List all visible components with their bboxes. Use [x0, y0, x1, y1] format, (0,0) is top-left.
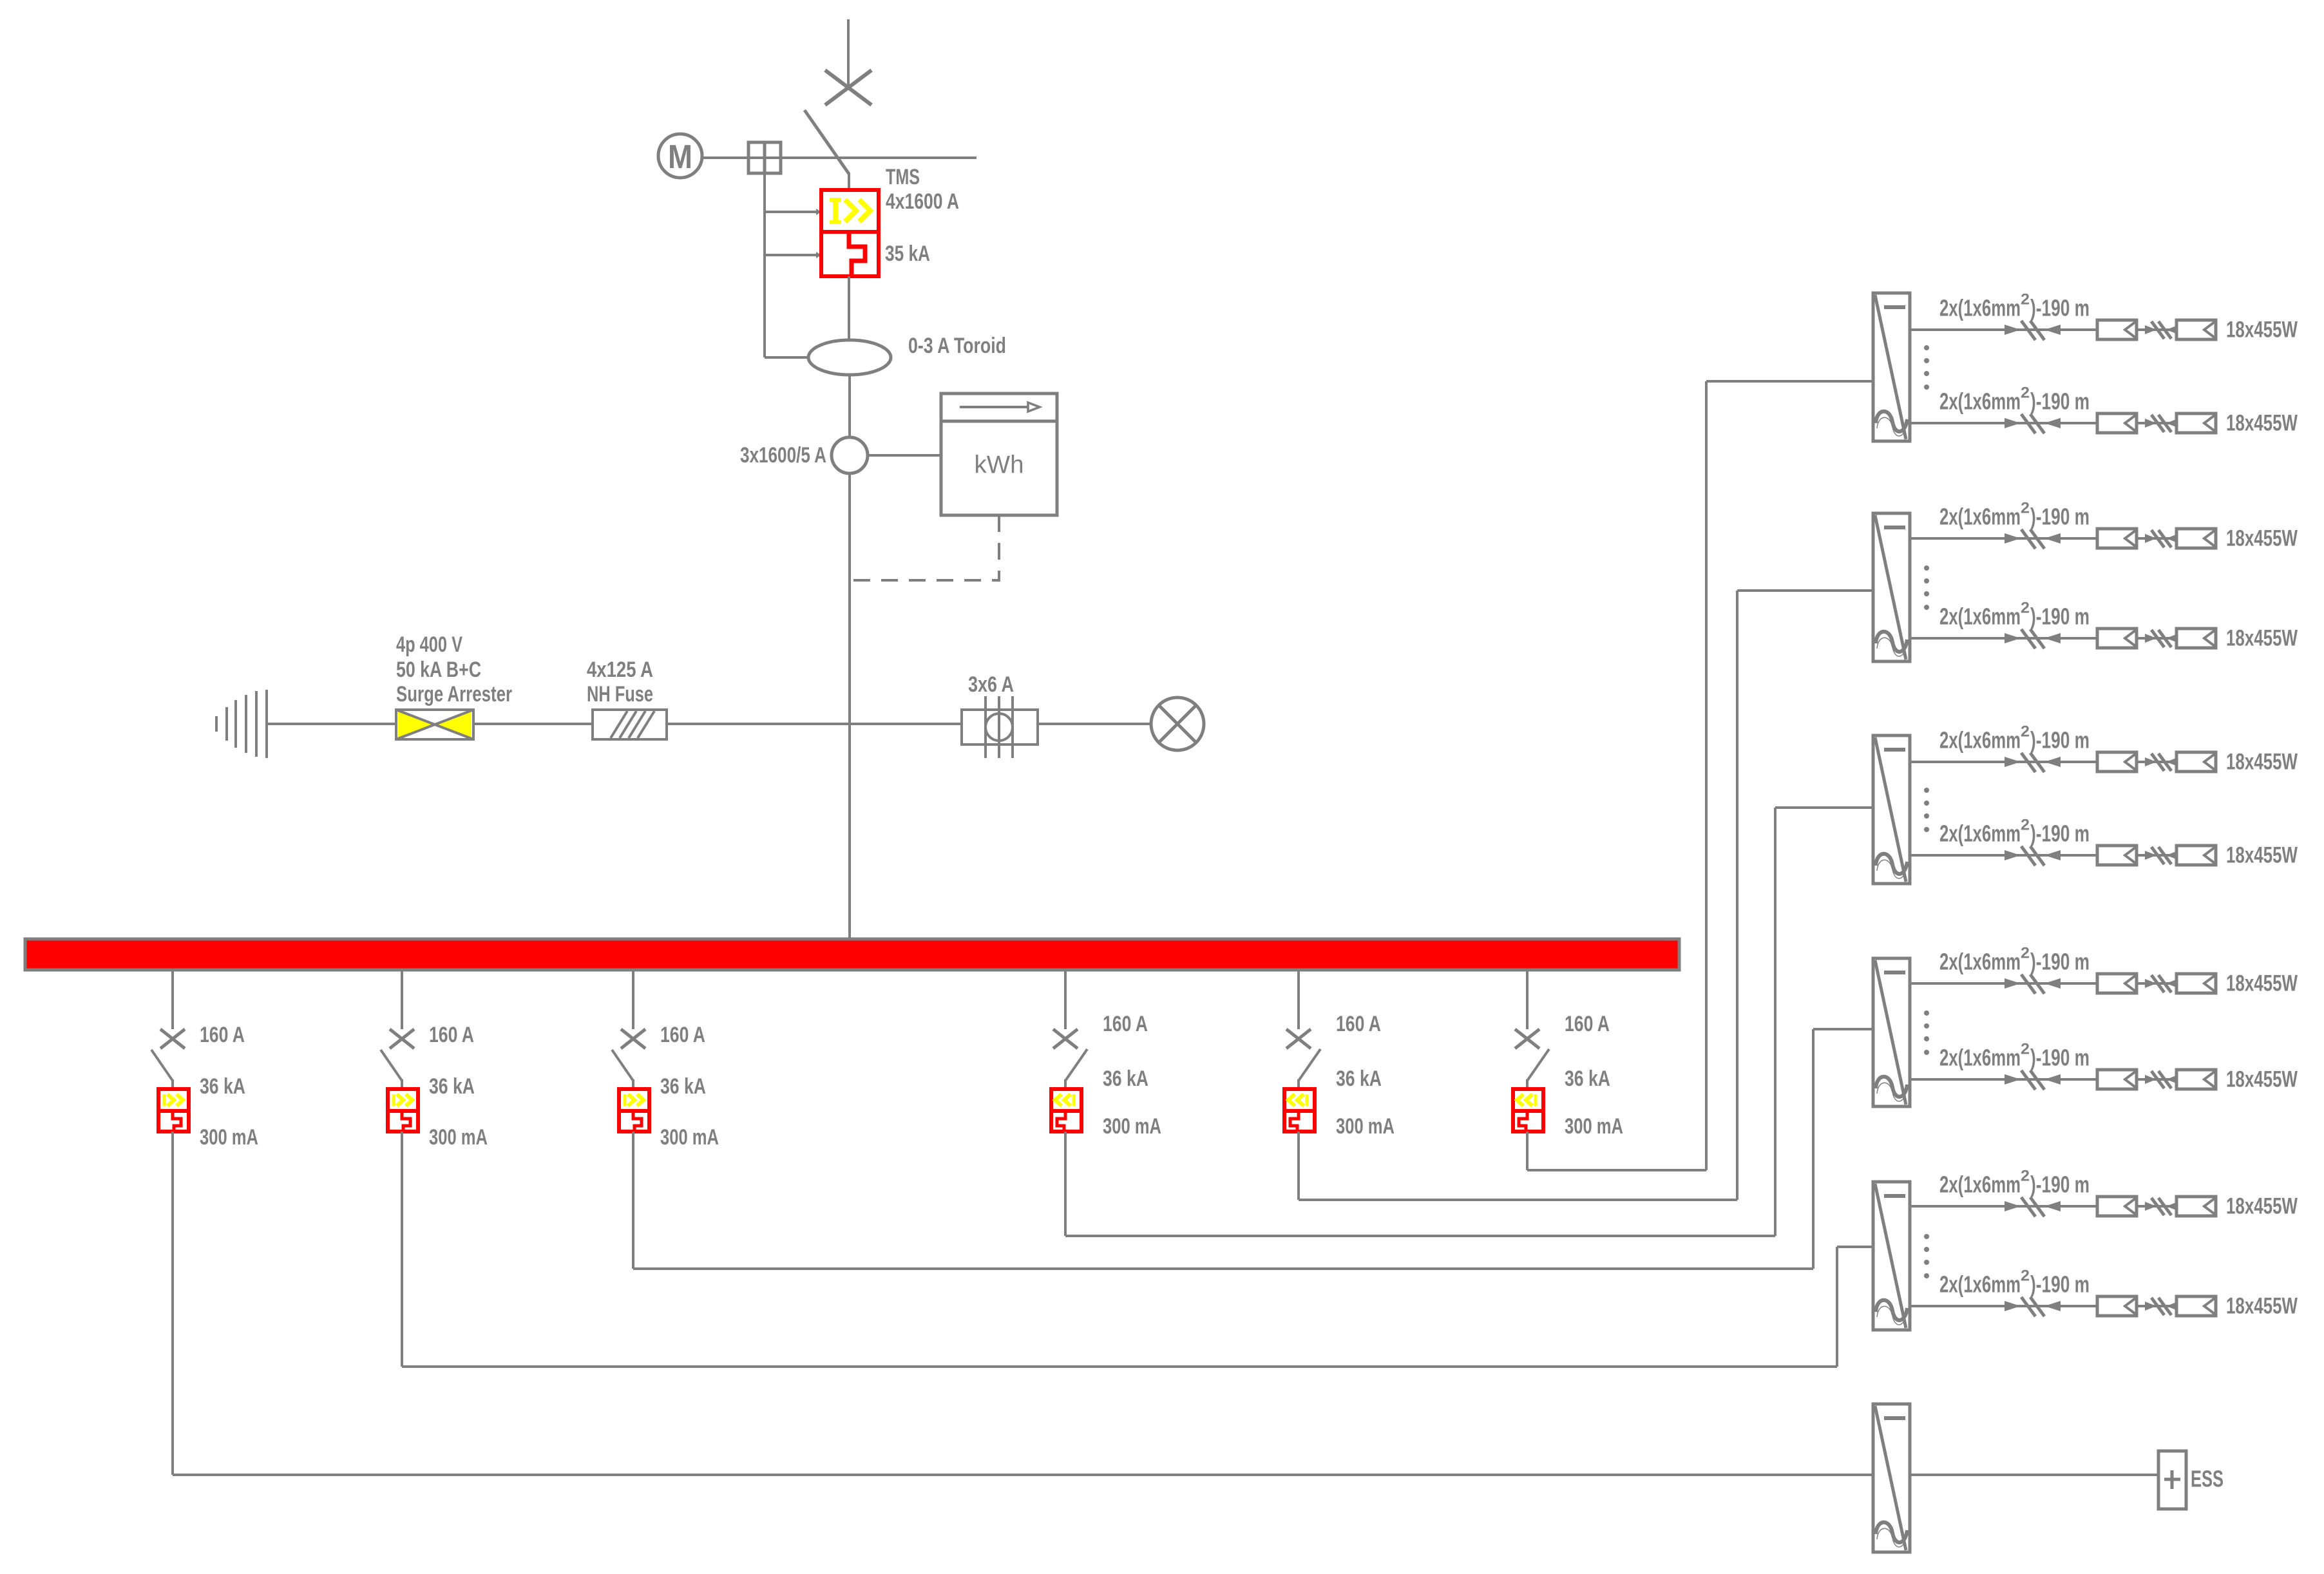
- DB1 circuit 2 cable label: [1939, 384, 2090, 415]
- feeder Q2 riser to distribution board: [1837, 1247, 1873, 1367]
- svg-text:0-3 A Toroid: 0-3 A Toroid: [908, 334, 1006, 358]
- DB1 circuit 1 luminaire group 1: [2097, 320, 2137, 339]
- DB4 circuit 1 luminaire group 2: [2176, 974, 2216, 993]
- DB2 circuit 1 label 18x455W: [2226, 526, 2298, 551]
- wire toroid to CT: [848, 375, 851, 438]
- label surge arrester: [396, 632, 512, 706]
- svg-text:300 mA: 300 mA: [200, 1125, 258, 1150]
- svg-text:2: 2: [2021, 1267, 2030, 1285]
- DB2 circuit 1 luminaire group 2: [2176, 529, 2216, 548]
- svg-text:)-190 m: )-190 m: [2030, 603, 2090, 630]
- svg-text:2: 2: [2021, 817, 2030, 834]
- svg-text:2: 2: [2021, 723, 2030, 741]
- svg-text:2x(1x6mm: 2x(1x6mm: [1939, 949, 2021, 975]
- feeder Q3 label 36 kA: [660, 1074, 706, 1099]
- svg-text:)-190 m: )-190 m: [2030, 820, 2090, 847]
- feeder Q5 label 160 A: [1336, 1012, 1381, 1036]
- feeder Q3 wire from busbar: [632, 970, 634, 1029]
- svg-text:36 kA: 36 kA: [1565, 1067, 1610, 1091]
- crossed square interlock symbol: [748, 142, 781, 173]
- feeder Q5 breaker blade: [1299, 1049, 1320, 1090]
- DB4 circuit 1 wire: [1910, 982, 2097, 985]
- svg-text:36 kA: 36 kA: [1336, 1067, 1382, 1091]
- feeder Q6 riser to distribution board: [1706, 381, 1873, 1170]
- distribution board DB3: [1873, 735, 1910, 884]
- svg-text:18x455W: 18x455W: [2226, 843, 2298, 868]
- DB5 dotted continuation: [1924, 1234, 1929, 1278]
- feeder Q1 wire from busbar: [171, 970, 174, 1029]
- svg-text:4x1600 A: 4x1600 A: [886, 189, 959, 214]
- label ESS: [2191, 1466, 2224, 1492]
- svg-text:36 kA: 36 kA: [200, 1074, 245, 1099]
- feeder Q1 outgoing wire run: [173, 1132, 1873, 1475]
- svg-text:2: 2: [2021, 600, 2030, 617]
- label 3x6 A: [968, 672, 1014, 697]
- svg-text:18x455W: 18x455W: [2226, 750, 2298, 775]
- svg-text:4p 400 V: 4p 400 V: [396, 632, 462, 657]
- DB5 circuit 2 luminaire group 1: [2097, 1296, 2137, 1316]
- main busbar 400 V: [25, 939, 1679, 970]
- feeder Q5 label 300 mA: [1336, 1114, 1395, 1139]
- DB3 circuit 1 cable label: [1939, 723, 2090, 754]
- DB4 circuit 1 cable joint symbol: [2005, 974, 2061, 994]
- wire main riser to busbar: [848, 473, 851, 939]
- wire arrester to fuse: [473, 723, 593, 725]
- svg-text:18x455W: 18x455W: [2226, 971, 2298, 996]
- feeder Q5 riser to distribution board: [1737, 591, 1873, 1200]
- feeder Q4 wire from busbar: [1064, 970, 1067, 1029]
- DB3 circuit 2 joint symbol 2: [2137, 847, 2178, 864]
- feeder Q5 disconnect cross: [1286, 1029, 1311, 1048]
- feeder Q5 RCD trip box 300 mA: [1284, 1089, 1315, 1132]
- wire auxiliary bus: [702, 156, 976, 159]
- feeder Q2 breaker blade: [381, 1050, 402, 1090]
- svg-text:300 mA: 300 mA: [660, 1125, 719, 1150]
- feeder Q6 label 36 kA: [1565, 1067, 1610, 1091]
- DB4 circuit 2 cable label: [1939, 1041, 2090, 1071]
- DB4 circuit 2 luminaire group 2: [2176, 1070, 2216, 1089]
- DB5 circuit 2 joint symbol 2: [2137, 1298, 2178, 1315]
- feeder Q4 outgoing wire run: [1065, 1132, 1775, 1236]
- svg-text:2: 2: [2021, 945, 2030, 962]
- DB2 circuit 2 joint symbol 2: [2137, 630, 2178, 647]
- svg-text:M: M: [668, 138, 692, 176]
- svg-text:2x(1x6mm: 2x(1x6mm: [1939, 1271, 2021, 1298]
- svg-text:2: 2: [2021, 291, 2030, 308]
- DB4 circuit 1 label 18x455W: [2226, 971, 2298, 996]
- svg-text:ESS: ESS: [2191, 1466, 2224, 1492]
- DB5 circuit 1 wire: [1910, 1205, 2097, 1208]
- DB1 circuit 2 cable joint symbol: [2005, 414, 2061, 433]
- DB2 circuit 1 joint symbol 2: [2137, 530, 2178, 547]
- DB5 circuit 2 wire: [1910, 1305, 2097, 1307]
- svg-text:2x(1x6mm: 2x(1x6mm: [1939, 504, 2021, 530]
- feeder Q1 label 36 kA: [200, 1074, 245, 1099]
- DB5 circuit 2 cable joint symbol: [2005, 1297, 2061, 1316]
- DB3 circuit 1 label 18x455W: [2226, 750, 2298, 775]
- svg-text:3x1600/5 A: 3x1600/5 A: [740, 443, 826, 468]
- svg-text:300 mA: 300 mA: [1336, 1114, 1395, 1139]
- feeder Q2 RCD trip box 300 mA: [388, 1089, 418, 1132]
- motor operator M: [658, 134, 702, 178]
- svg-text:4x125 A: 4x125 A: [587, 658, 653, 682]
- DB5 circuit 1 cable label: [1939, 1168, 2090, 1198]
- feeder Q2 label 300 mA: [429, 1125, 488, 1150]
- wire breaker to toroid: [848, 276, 850, 341]
- feeder Q2 label 36 kA: [429, 1074, 475, 1099]
- feeder Q5 wire from busbar: [1297, 970, 1300, 1029]
- feeder Q1 RCD trip box 300 mA: [158, 1089, 189, 1132]
- svg-text:2: 2: [2021, 1041, 2030, 1058]
- distribution board DB1: [1873, 293, 1910, 441]
- DB2 circuit 1 wire: [1910, 537, 2097, 540]
- feeder Q2 outgoing wire run: [402, 1132, 1837, 1367]
- kWh energy meter: [941, 393, 1057, 515]
- feeder Q4 label 300 mA: [1103, 1114, 1161, 1139]
- svg-text:18x455W: 18x455W: [2226, 411, 2298, 436]
- svg-text:)-190 m: )-190 m: [2030, 1171, 2090, 1198]
- svg-text:2x(1x6mm: 2x(1x6mm: [1939, 1045, 2021, 1071]
- label 35 kA: [885, 242, 930, 266]
- DB5 circuit 1 luminaire group 2: [2176, 1197, 2216, 1216]
- feeder Q2 disconnect cross: [390, 1029, 414, 1048]
- feeder Q6 breaker blade: [1527, 1049, 1549, 1090]
- svg-text:18x455W: 18x455W: [2226, 1067, 2298, 1092]
- svg-text:300 mA: 300 mA: [1103, 1114, 1161, 1139]
- DB3 circuit 1 joint symbol 2: [2137, 754, 2178, 771]
- feeder Q2 wire from busbar: [401, 970, 403, 1029]
- DB3 circuit 2 wire: [1910, 854, 2097, 857]
- feeder Q5 outgoing wire run: [1299, 1132, 1737, 1200]
- current transformer 3x1600/5 A: [832, 437, 868, 473]
- svg-text:)-190 m: )-190 m: [2030, 1271, 2090, 1298]
- svg-text:18x455W: 18x455W: [2226, 318, 2298, 343]
- feeder Q4 RCD trip box 300 mA: [1051, 1089, 1081, 1132]
- svg-text:)-190 m: )-190 m: [2030, 727, 2090, 754]
- svg-text:18x455W: 18x455W: [2226, 526, 2298, 551]
- trip unit box I>> (TMS 4x1600 A): [821, 190, 879, 232]
- feeder Q4 disconnect cross: [1053, 1029, 1078, 1048]
- signal lamp: [1151, 697, 1204, 750]
- svg-text:2: 2: [2021, 500, 2030, 517]
- svg-text:36 kA: 36 kA: [1103, 1067, 1148, 1091]
- svg-text:160 A: 160 A: [660, 1023, 705, 1047]
- NH fuse 4x125 A: [593, 710, 667, 739]
- DB1 circuit 1 label 18x455W: [2226, 318, 2298, 343]
- DB6 output wire to ESS: [1910, 1474, 2158, 1476]
- svg-text:160 A: 160 A: [1336, 1012, 1381, 1036]
- antenna earth electrode symbol: [216, 690, 267, 758]
- DB5 circuit 2 label 18x455W: [2226, 1294, 2298, 1319]
- feeder Q3 riser to distribution board: [1813, 1029, 1873, 1269]
- svg-text:2x(1x6mm: 2x(1x6mm: [1939, 603, 2021, 630]
- svg-text:18x455W: 18x455W: [2226, 1194, 2298, 1219]
- svg-text:36 kA: 36 kA: [660, 1074, 706, 1099]
- DB3 circuit 1 luminaire group 1: [2097, 752, 2137, 772]
- feeder Q5 label 36 kA: [1336, 1067, 1382, 1091]
- surge arrester 4p 400 V 50 kA B+C: [396, 710, 473, 739]
- DB1 circuit 1 cable label: [1939, 291, 2090, 321]
- svg-text:36 kA: 36 kA: [429, 1074, 475, 1099]
- DB1 circuit 1 cable joint symbol: [2005, 321, 2061, 340]
- toroid CT 0-3 A: [765, 340, 891, 375]
- feeder Q6 wire from busbar: [1526, 970, 1529, 1029]
- DB1 circuit 1 luminaire group 2: [2176, 320, 2216, 339]
- wire tap to trip unit: [765, 252, 821, 258]
- DB5 circuit 1 cable joint symbol: [2005, 1197, 2061, 1217]
- feeder Q3 label 160 A: [660, 1023, 705, 1047]
- distribution board DB6: [1873, 1404, 1910, 1552]
- feeder Q6 RCD trip box 300 mA: [1513, 1089, 1543, 1132]
- feeder Q4 breaker blade: [1065, 1049, 1087, 1090]
- DB2 circuit 2 luminaire group 2: [2176, 629, 2216, 648]
- svg-text:300 mA: 300 mA: [429, 1125, 488, 1150]
- svg-text:)-190 m: )-190 m: [2030, 504, 2090, 530]
- DB2 circuit 2 wire: [1910, 637, 2097, 640]
- DB2 dotted continuation: [1924, 565, 1929, 610]
- svg-text:TMS: TMS: [886, 165, 920, 189]
- svg-text:160 A: 160 A: [1103, 1012, 1148, 1036]
- label TMS: [886, 165, 920, 189]
- svg-text:)-190 m: )-190 m: [2030, 388, 2090, 415]
- feeder Q1 label 160 A: [200, 1023, 245, 1047]
- label 3x1600/5 A: [740, 443, 826, 468]
- contactor 3x6 A: [962, 696, 1038, 758]
- DB4 circuit 2 luminaire group 1: [2097, 1070, 2137, 1089]
- DB2 circuit 1 cable joint symbol: [2005, 529, 2061, 549]
- wire incoming supply stub: [847, 19, 850, 88]
- wire fuse to control device: [667, 723, 962, 725]
- svg-text:50 kA B+C: 50 kA B+C: [396, 658, 481, 682]
- svg-text:160 A: 160 A: [1565, 1012, 1610, 1036]
- DB4 circuit 1 luminaire group 1: [2097, 974, 2137, 993]
- svg-text:2x(1x6mm: 2x(1x6mm: [1939, 295, 2021, 321]
- feeder Q6 outgoing wire run: [1527, 1132, 1706, 1170]
- thermal-magnetic release box (35 kA): [821, 232, 879, 276]
- ESS emergency supply box: [2158, 1451, 2186, 1509]
- DB4 circuit 2 label 18x455W: [2226, 1067, 2298, 1092]
- DB3 circuit 1 wire: [1910, 761, 2097, 763]
- circuit breaker Q0 blade: [805, 110, 849, 191]
- DB5 circuit 1 luminaire group 1: [2097, 1197, 2137, 1216]
- wire tap to overcurrent release: [765, 209, 821, 215]
- DB3 dotted continuation: [1924, 788, 1929, 832]
- feeder Q1 label 300 mA: [200, 1125, 258, 1150]
- label NH fuse: [587, 658, 653, 706]
- DB1 circuit 2 label 18x455W: [2226, 411, 2298, 436]
- DB1 circuit 2 luminaire group 1: [2097, 413, 2137, 433]
- svg-text:kWh: kWh: [975, 451, 1024, 479]
- DB2 circuit 2 cable label: [1939, 600, 2090, 630]
- svg-text:300 mA: 300 mA: [1565, 1114, 1623, 1139]
- svg-text:)-190 m: )-190 m: [2030, 295, 2090, 321]
- DB2 circuit 2 label 18x455W: [2226, 626, 2298, 651]
- DB3 circuit 2 cable joint symbol: [2005, 846, 2061, 866]
- DB3 circuit 2 cable label: [1939, 817, 2090, 847]
- DB1 circuit 1 wire: [1910, 328, 2097, 331]
- distribution board DB5: [1873, 1182, 1910, 1330]
- svg-text:35 kA: 35 kA: [885, 242, 930, 266]
- DB3 circuit 2 label 18x455W: [2226, 843, 2298, 868]
- dashed meter connection: [851, 515, 999, 580]
- feeder Q4 riser to distribution board: [1775, 808, 1873, 1236]
- svg-text:2x(1x6mm: 2x(1x6mm: [1939, 820, 2021, 847]
- DB3 circuit 1 cable joint symbol: [2005, 753, 2061, 772]
- feeder Q3 RCD trip box 300 mA: [619, 1089, 649, 1132]
- feeder Q3 label 300 mA: [660, 1125, 719, 1150]
- DB1 circuit 2 wire: [1910, 422, 2097, 424]
- wire antenna to surge arrester: [267, 723, 396, 725]
- DB3 circuit 1 luminaire group 2: [2176, 752, 2216, 772]
- DB4 circuit 2 cable joint symbol: [2005, 1070, 2061, 1090]
- feeder Q1 disconnect cross: [160, 1029, 185, 1048]
- svg-text:2x(1x6mm: 2x(1x6mm: [1939, 388, 2021, 415]
- label 4x1600 A: [886, 189, 959, 214]
- svg-text:18x455W: 18x455W: [2226, 1294, 2298, 1319]
- DB4 circuit 2 wire: [1910, 1078, 2097, 1081]
- feeder Q2 label 160 A: [429, 1023, 474, 1047]
- DB5 circuit 2 cable label: [1939, 1267, 2090, 1298]
- svg-text:)-190 m: )-190 m: [2030, 1045, 2090, 1071]
- DB2 circuit 2 cable joint symbol: [2005, 629, 2061, 649]
- feeder Q1 breaker blade: [151, 1050, 173, 1090]
- DB4 circuit 1 joint symbol 2: [2137, 975, 2178, 992]
- wire left control branch: [763, 173, 766, 357]
- DB4 dotted continuation: [1924, 1010, 1929, 1055]
- svg-text:3x6 A: 3x6 A: [968, 672, 1014, 697]
- DB4 circuit 2 joint symbol 2: [2137, 1071, 2178, 1088]
- DB3 circuit 2 luminaire group 2: [2176, 846, 2216, 865]
- DB2 circuit 1 luminaire group 1: [2097, 529, 2137, 548]
- DB3 circuit 2 luminaire group 1: [2097, 846, 2137, 865]
- DB5 circuit 1 label 18x455W: [2226, 1194, 2298, 1219]
- DB5 circuit 1 joint symbol 2: [2137, 1198, 2178, 1215]
- svg-text:2: 2: [2021, 384, 2030, 402]
- distribution board DB2: [1873, 513, 1910, 661]
- svg-text:160 A: 160 A: [200, 1023, 245, 1047]
- feeder Q6 disconnect cross: [1515, 1029, 1539, 1048]
- svg-text:160 A: 160 A: [429, 1023, 474, 1047]
- feeder Q3 breaker blade: [612, 1050, 633, 1090]
- disconnect cross X1 (incoming): [825, 70, 871, 105]
- svg-text:NH Fuse: NH Fuse: [587, 682, 653, 706]
- svg-text:2x(1x6mm: 2x(1x6mm: [1939, 1171, 2021, 1198]
- feeder Q6 label 160 A: [1565, 1012, 1610, 1036]
- distribution board DB4: [1873, 958, 1910, 1106]
- DB2 circuit 1 cable label: [1939, 500, 2090, 530]
- label 0-3 A Toroid: [908, 334, 1006, 358]
- feeder Q4 label 160 A: [1103, 1012, 1148, 1036]
- DB1 circuit 1 joint symbol 2: [2137, 321, 2178, 339]
- DB1 dotted continuation: [1924, 345, 1929, 390]
- svg-text:2: 2: [2021, 1168, 2030, 1185]
- wire device to lamp: [1038, 723, 1151, 725]
- svg-text:)-190 m: )-190 m: [2030, 949, 2090, 975]
- DB1 circuit 2 luminaire group 2: [2176, 413, 2216, 433]
- feeder Q6 label 300 mA: [1565, 1114, 1623, 1139]
- feeder Q3 disconnect cross: [621, 1029, 645, 1048]
- DB1 circuit 2 joint symbol 2: [2137, 415, 2178, 432]
- svg-text:Surge Arrester: Surge Arrester: [396, 682, 512, 706]
- DB4 circuit 1 cable label: [1939, 945, 2090, 975]
- DB2 circuit 2 luminaire group 1: [2097, 629, 2137, 648]
- svg-text:18x455W: 18x455W: [2226, 626, 2298, 651]
- feeder Q3 outgoing wire run: [633, 1132, 1813, 1269]
- svg-text:2x(1x6mm: 2x(1x6mm: [1939, 727, 2021, 754]
- feeder Q4 label 36 kA: [1103, 1067, 1148, 1091]
- DB5 circuit 2 luminaire group 2: [2176, 1296, 2216, 1316]
- wire CT to kWh meter: [868, 454, 941, 457]
